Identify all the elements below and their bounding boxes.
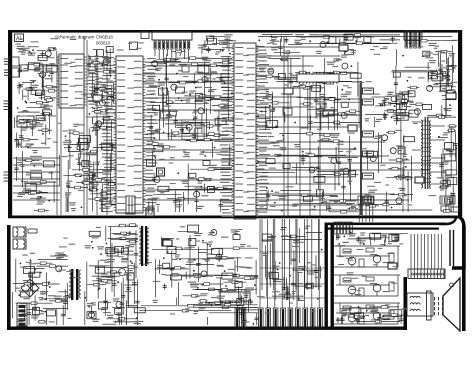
resistor R138	[84, 179, 112, 181]
node value label	[208, 165, 217, 166]
node junction	[228, 163, 230, 165]
diode D153	[314, 176, 325, 182]
node junction	[436, 70, 438, 72]
capacitor C208	[400, 316, 402, 325]
wire	[367, 150, 369, 169]
capacitor C160	[452, 177, 454, 213]
wire	[403, 135, 405, 179]
capacitor C176	[91, 306, 93, 318]
node value label	[200, 293, 208, 294]
wire	[404, 277, 408, 330]
wire	[177, 282, 179, 305]
node B4	[363, 151, 374, 157]
resistor R173	[194, 187, 227, 189]
node value label	[194, 311, 199, 312]
wire	[390, 233, 408, 235]
node junction	[189, 94, 191, 96]
capacitor C169	[28, 302, 30, 325]
wire	[178, 231, 196, 233]
node value label	[196, 206, 204, 207]
resistor R267	[214, 247, 258, 249]
capacitor C104	[392, 36, 394, 42]
resistor R242	[31, 283, 60, 285]
wire	[266, 191, 268, 210]
node value label	[190, 284, 199, 285]
wire	[187, 304, 212, 306]
wire	[56, 51, 58, 63]
node value label	[357, 318, 363, 319]
node value label	[214, 141, 220, 142]
wire	[421, 120, 431, 122]
wire	[326, 201, 328, 211]
node value label	[245, 288, 254, 289]
node value label	[95, 162, 100, 163]
wire	[22, 159, 42, 161]
wire	[93, 146, 116, 148]
node junction	[197, 287, 199, 289]
diode D206	[306, 283, 313, 288]
node value label	[106, 259, 115, 260]
capacitor C159	[446, 68, 448, 86]
node value label	[340, 308, 348, 309]
resistor R272	[193, 306, 258, 308]
wire	[333, 101, 360, 103]
resistor R154	[149, 132, 202, 134]
node value label	[224, 34, 232, 35]
node value label	[89, 70, 97, 71]
transistor Q132	[116, 302, 122, 308]
resistor R255	[182, 295, 206, 297]
node X101	[157, 168, 165, 176]
node value label	[341, 94, 348, 95]
node junction	[29, 51, 31, 53]
node junction	[136, 317, 138, 319]
node value label	[22, 48, 30, 49]
diode D108	[25, 183, 36, 190]
node junction	[49, 286, 51, 288]
resistor R213	[370, 204, 402, 206]
wire	[51, 171, 53, 179]
wire	[293, 269, 322, 271]
resistor R148	[94, 87, 112, 89]
node value label	[178, 70, 183, 71]
node value label	[23, 189, 31, 190]
capacitor C103	[345, 35, 347, 41]
resistor R119	[31, 93, 45, 95]
resistor R258	[205, 302, 231, 304]
node junction	[177, 172, 179, 174]
node value label	[194, 125, 199, 126]
node junction	[396, 118, 398, 120]
node value label	[405, 91, 411, 92]
wire	[48, 112, 50, 134]
node value label	[334, 202, 338, 203]
node value label	[360, 240, 366, 241]
wire	[261, 219, 263, 290]
capacitor C193	[197, 247, 199, 282]
node junction	[130, 260, 132, 262]
wire	[443, 153, 454, 155]
capacitor C163	[450, 192, 452, 212]
node value label	[210, 89, 217, 90]
wire	[108, 226, 138, 228]
node value label	[37, 198, 46, 199]
resistor R216	[388, 168, 401, 170]
node junction	[224, 270, 226, 272]
resistor R249	[124, 266, 138, 268]
node P103	[130, 42, 138, 50]
node junction	[102, 63, 104, 65]
diode D203	[134, 308, 145, 313]
node junction	[309, 40, 311, 42]
node value label	[17, 85, 22, 86]
diode D201	[99, 302, 108, 309]
wire	[292, 167, 318, 169]
node value label	[330, 196, 338, 197]
resistor R106	[26, 191, 48, 193]
wire	[102, 323, 116, 325]
wire	[204, 62, 206, 114]
wire	[171, 129, 173, 140]
node value label	[200, 152, 205, 153]
node value label	[48, 47, 56, 48]
node junction	[39, 75, 41, 77]
node junction	[381, 104, 383, 106]
wire	[334, 164, 336, 190]
wire	[377, 133, 379, 174]
resistor R234	[398, 113, 413, 115]
diode D189	[127, 273, 134, 280]
node value label	[20, 164, 25, 165]
node junction	[380, 104, 382, 106]
capacitor C127	[175, 115, 177, 128]
capacitor C126	[194, 96, 196, 140]
node junction	[193, 119, 195, 121]
node value label	[188, 259, 197, 260]
node value label	[274, 154, 281, 155]
resistor R146	[106, 97, 116, 99]
node value label	[103, 56, 109, 57]
op-amp U4 body	[297, 74, 339, 82]
wire	[175, 99, 191, 101]
node value label	[331, 74, 337, 75]
resistor R244	[126, 241, 138, 243]
node value label	[211, 71, 217, 72]
resistor R193	[269, 57, 301, 59]
wire	[358, 84, 360, 128]
node junction	[98, 269, 100, 271]
resistor R166	[219, 62, 232, 64]
capacitor C202	[286, 286, 288, 300]
node value label	[161, 274, 165, 275]
diode D102	[208, 38, 217, 44]
capacitor C119	[78, 157, 80, 171]
node junction	[405, 166, 407, 168]
wire	[46, 273, 48, 301]
resistor R188	[258, 75, 280, 77]
node value label	[376, 119, 383, 120]
wire	[154, 49, 156, 56]
capacitor C108	[31, 120, 33, 136]
wire	[88, 156, 90, 192]
node junction	[91, 190, 93, 192]
node value label	[398, 148, 403, 149]
wire	[236, 258, 238, 272]
node junction	[158, 79, 160, 81]
resistor R180	[286, 80, 352, 82]
capacitor C188	[218, 249, 220, 262]
node value label	[95, 172, 104, 173]
diode D199	[233, 235, 240, 240]
wire	[19, 159, 40, 161]
wire	[43, 111, 45, 117]
inductor CRT coils	[407, 293, 433, 316]
wire	[340, 317, 342, 324]
resistor R163	[199, 125, 222, 127]
capacitor C164	[455, 132, 457, 158]
node junction	[167, 251, 169, 253]
diode D801 bridge	[21, 279, 39, 297]
diode D185	[106, 248, 115, 254]
transistor Q129	[414, 109, 420, 115]
node value label	[223, 42, 228, 43]
wire	[166, 188, 217, 190]
node value label	[204, 77, 211, 78]
diode D147	[312, 85, 321, 91]
node junction	[179, 259, 181, 261]
diode D162	[398, 147, 405, 154]
capacitor C181	[118, 317, 120, 325]
resistor R250	[106, 318, 137, 320]
wire	[8, 30, 12, 218]
resistor R110	[23, 159, 35, 161]
resistor R273	[141, 305, 241, 307]
node junction	[440, 186, 442, 188]
wire	[78, 153, 97, 155]
node value label	[365, 118, 370, 119]
wire	[165, 58, 167, 80]
capacitor C196	[256, 313, 258, 325]
wire	[101, 276, 115, 278]
node junction	[280, 58, 282, 60]
node value label	[188, 96, 196, 97]
resistor R187	[327, 72, 360, 74]
node value label	[29, 124, 36, 125]
diode D174	[429, 72, 438, 79]
transistor Q902	[348, 286, 356, 294]
diode D190	[121, 248, 128, 254]
node value label	[48, 295, 56, 296]
resistor R177	[167, 198, 196, 200]
diode D168	[446, 170, 457, 175]
node value label	[26, 144, 34, 145]
wire	[176, 258, 235, 260]
wire	[96, 50, 98, 215]
transistor Q136	[211, 230, 217, 236]
node value label	[35, 124, 44, 125]
transistor Q121	[331, 158, 337, 164]
node value label	[40, 291, 46, 292]
op-amp U801	[220, 292, 250, 301]
diode D202	[237, 298, 244, 305]
node value label	[443, 132, 450, 133]
resistor R233	[384, 110, 397, 112]
diode D182	[20, 292, 29, 297]
wire	[42, 298, 68, 300]
node value label	[37, 201, 45, 202]
resistor R159	[165, 59, 179, 61]
wire	[157, 205, 159, 212]
resistor R268	[170, 274, 179, 276]
wire	[28, 46, 39, 48]
resistor R145	[107, 92, 115, 94]
capacitor C145	[272, 92, 274, 130]
node value label	[45, 68, 52, 69]
node value label	[309, 34, 317, 35]
resistor R186	[289, 87, 324, 89]
node value label	[113, 272, 122, 273]
node junction	[117, 281, 119, 283]
node value label	[267, 237, 274, 238]
node junction	[131, 262, 133, 264]
capacitor C180	[121, 283, 123, 325]
diode D192	[188, 225, 199, 232]
wire	[14, 117, 16, 128]
node junction	[445, 72, 447, 74]
wire	[343, 307, 390, 309]
node value label	[441, 162, 449, 163]
node value label	[189, 91, 196, 92]
capacitor C178	[133, 263, 135, 304]
wire	[19, 290, 39, 292]
wire	[150, 85, 161, 87]
resistor R168	[184, 95, 221, 97]
resistor R271	[197, 304, 257, 306]
node value label	[84, 171, 93, 172]
node junction	[330, 97, 332, 99]
resistor R115	[30, 102, 49, 104]
wire	[317, 170, 350, 172]
resistor R171	[202, 96, 232, 98]
node value label	[124, 275, 132, 276]
node value label	[23, 181, 28, 182]
wire	[53, 181, 55, 202]
resistor R130	[100, 204, 116, 206]
diode D105	[344, 34, 353, 40]
resistor R124	[46, 90, 57, 92]
node CRT socket	[408, 269, 445, 279]
capacitor C112	[19, 64, 21, 77]
node P101	[152, 32, 192, 41]
wire	[388, 102, 404, 104]
node value label	[184, 152, 190, 153]
node value label	[96, 227, 101, 228]
resistor R208	[390, 194, 413, 196]
node value label	[199, 308, 206, 309]
wire	[18, 111, 40, 113]
node P401 frame	[404, 31, 422, 40]
node value label	[241, 267, 250, 268]
node value label	[89, 181, 95, 182]
resistor R195	[274, 51, 300, 53]
node junction	[279, 262, 281, 264]
diode D209	[389, 234, 398, 241]
resistor R167	[212, 105, 232, 107]
wire	[375, 105, 385, 107]
resistor R206	[404, 177, 413, 179]
node junction	[186, 127, 188, 129]
inductor T401 winding2	[421, 156, 423, 188]
node junction	[211, 304, 213, 306]
node value label	[197, 180, 203, 181]
diode D137	[208, 186, 215, 192]
wire	[349, 163, 351, 200]
inductor T401 core	[424, 117, 426, 189]
wire	[288, 44, 302, 46]
wire	[27, 88, 29, 100]
node value label	[98, 107, 103, 108]
node junction	[302, 151, 304, 153]
capacitor C149	[343, 172, 345, 202]
node junction	[402, 94, 404, 96]
node junction	[27, 120, 29, 122]
wire	[41, 63, 43, 87]
node value label	[54, 296, 62, 297]
wire	[45, 124, 47, 145]
node value label	[203, 60, 211, 61]
node junction	[193, 270, 195, 272]
node junction	[214, 147, 216, 149]
wire	[265, 106, 267, 130]
node value label	[343, 312, 351, 313]
wire	[261, 239, 272, 241]
wire	[103, 58, 111, 59]
node value label	[431, 71, 437, 72]
resistor R254	[244, 277, 258, 279]
node value label	[278, 196, 286, 197]
node value label	[388, 110, 395, 111]
node value label	[319, 107, 327, 108]
transistor Q128	[427, 85, 433, 91]
node value label	[105, 60, 112, 61]
wire	[212, 188, 232, 190]
node value label	[170, 111, 178, 112]
resistor R204	[319, 134, 335, 136]
wire	[372, 233, 402, 235]
wire	[40, 91, 42, 100]
node junction	[281, 210, 283, 212]
node value label	[294, 144, 300, 145]
wire	[92, 172, 94, 212]
node value label	[445, 175, 451, 176]
wire	[110, 226, 112, 278]
capacitor C173	[30, 261, 32, 292]
wire	[295, 162, 297, 183]
node value label	[208, 242, 212, 243]
wire	[446, 65, 456, 67]
node value label	[151, 93, 156, 94]
capacitor C110	[16, 133, 18, 149]
node junction	[394, 105, 396, 107]
node junction	[168, 133, 170, 135]
node junction	[447, 184, 449, 186]
wire	[240, 295, 242, 303]
node junction	[275, 125, 277, 127]
capacitor C141	[310, 115, 312, 130]
diode D133	[153, 106, 160, 111]
node junction	[402, 55, 404, 57]
transistor Q122	[309, 167, 315, 173]
